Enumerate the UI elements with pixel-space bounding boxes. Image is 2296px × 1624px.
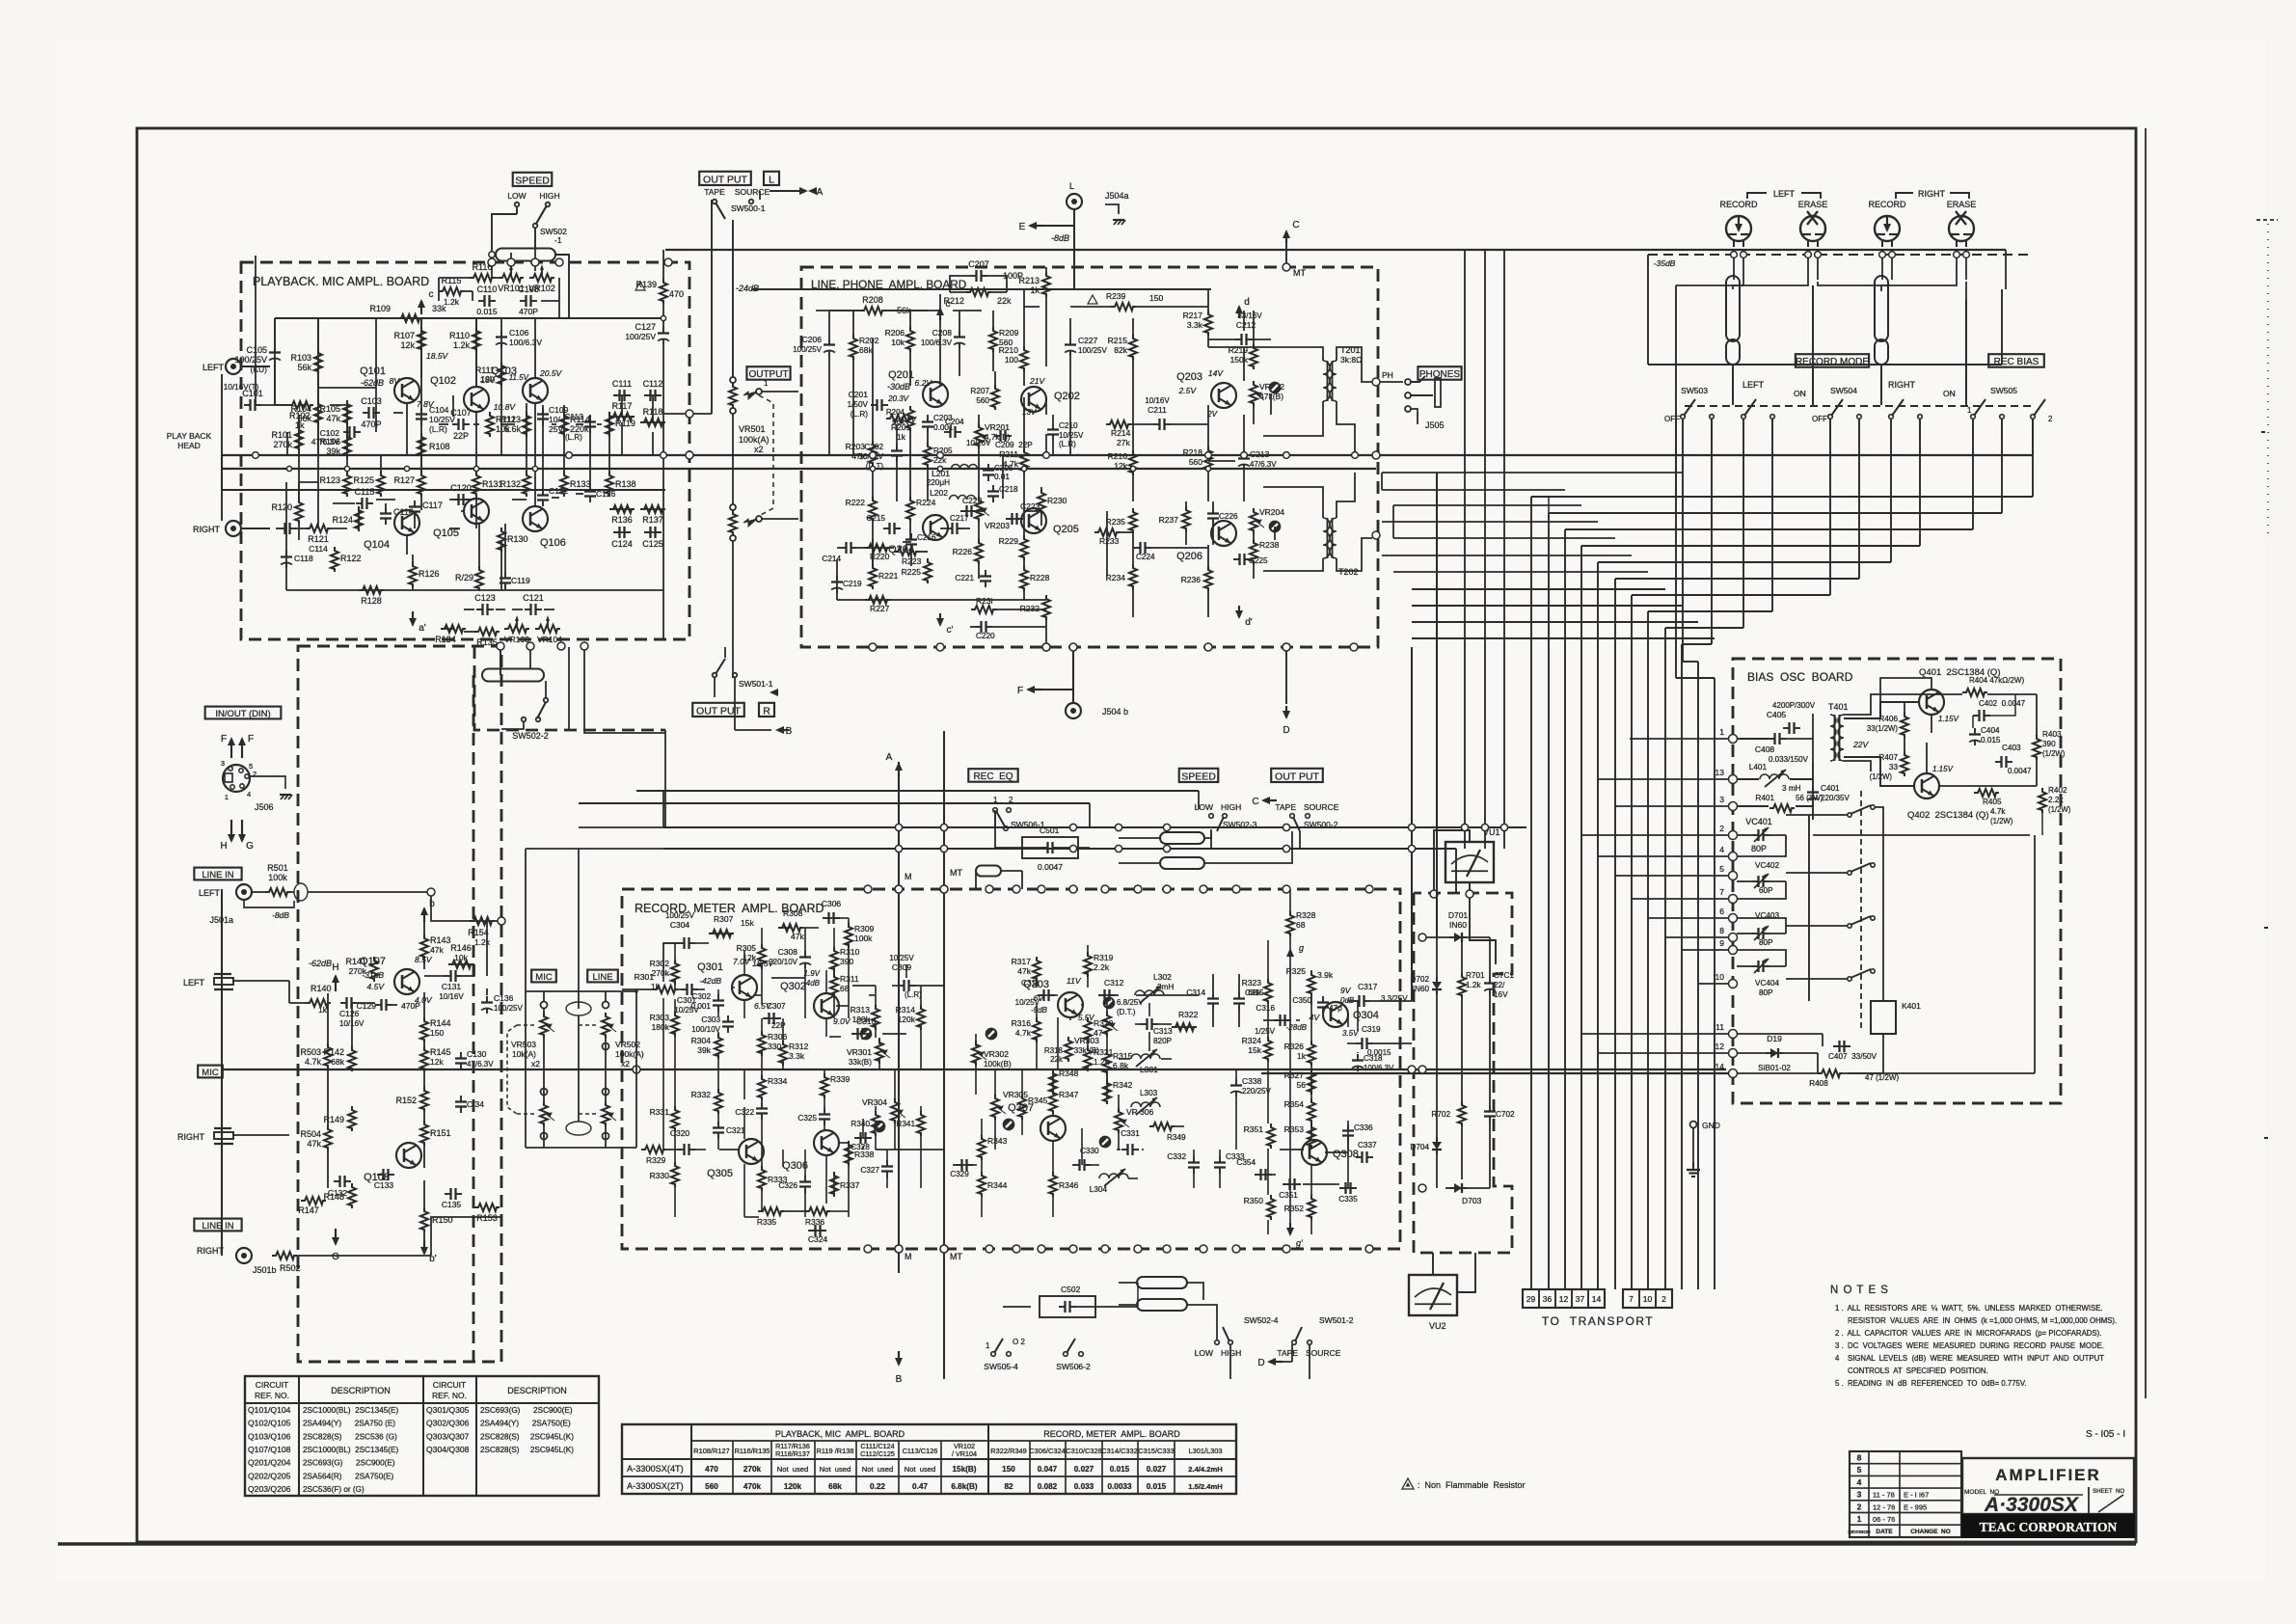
svg-text:R132: R132 [500, 479, 521, 489]
svg-text:100/10V: 100/10V [691, 1025, 720, 1034]
svg-text:R108: R108 [429, 442, 450, 451]
svg-text:R322/R349: R322/R349 [990, 1447, 1026, 1455]
svg-text:R501: R501 [267, 863, 288, 873]
svg-text:22/: 22/ [1494, 981, 1505, 989]
resistor R342 [1103, 1079, 1111, 1104]
svg-text:68k: 68k [331, 1057, 344, 1067]
sheet border frame [137, 128, 2136, 1542]
svg-text:R329: R329 [646, 1155, 666, 1165]
svg-text:C325: C325 [797, 1114, 817, 1123]
svg-text:PLAY BACK: PLAY BACK [167, 431, 212, 441]
svg-text:Q202: Q202 [1054, 391, 1080, 402]
resistor R109 [397, 314, 422, 322]
bracket label RIGHT heads [1896, 193, 1913, 199]
playback board vertical wires [274, 318, 276, 405]
svg-text:C405: C405 [1767, 710, 1787, 719]
svg-text:21V: 21V [1029, 376, 1045, 386]
bracket label LEFT heads [1747, 193, 1767, 199]
svg-text:OFF: OFF [1812, 415, 1827, 423]
svg-text:R324: R324 [1242, 1036, 1262, 1045]
svg-text:2: 2 [253, 770, 257, 778]
wire D arrow bottom [1283, 643, 1290, 651]
svg-text:Not used: Not used [905, 1465, 936, 1474]
svg-text:AMPLIFIER: AMPLIFIER [1995, 1466, 2101, 1484]
switch SW502-2 [522, 717, 527, 722]
svg-text:R312: R312 [789, 1042, 809, 1051]
pot VR104 [535, 625, 560, 633]
resistor R124 [355, 506, 363, 531]
capacitor C221 [985, 570, 986, 577]
svg-text:6.2V: 6.2V [915, 378, 933, 388]
svg-text:E - 995: E - 995 [1904, 1502, 1927, 1511]
svg-text:D19: D19 [1767, 1034, 1782, 1043]
svg-text:Q101: Q101 [360, 365, 386, 377]
inductor L304 [1099, 1174, 1128, 1178]
resistor R142 [348, 1046, 356, 1071]
svg-text:C310/C328: C310/C328 [1066, 1447, 1101, 1455]
svg-text:9V: 9V [1340, 986, 1352, 995]
svg-text:CHANGE NO: CHANGE NO [1910, 1529, 1951, 1535]
capacitor C350 [1322, 996, 1324, 1003]
svg-text:R148: R148 [323, 1192, 344, 1202]
svg-text:1.15V: 1.15V [1938, 715, 1959, 723]
capacitor C303 [727, 1015, 729, 1022]
capacitor C225 [1233, 558, 1240, 560]
svg-text:470: 470 [705, 1465, 718, 1474]
svg-text:RIGHT: RIGHT [177, 1132, 205, 1142]
svg-text:6: 6 [1719, 907, 1724, 916]
resistor R343 [978, 1135, 986, 1160]
svg-text:VR203: VR203 [985, 521, 1010, 530]
svg-text:Q203: Q203 [1176, 371, 1202, 383]
svg-text:C307: C307 [767, 1002, 786, 1011]
capacitor C311 [1038, 994, 1044, 996]
svg-text:C113: C113 [564, 412, 583, 421]
capacitor C129 [375, 1004, 382, 1006]
svg-text:x2: x2 [621, 1059, 630, 1069]
head lead nodes [1731, 252, 1738, 258]
svg-text:C213: C213 [1250, 449, 1270, 459]
svg-text:R101: R101 [271, 430, 292, 440]
svg-text:C317: C317 [1358, 982, 1378, 991]
dashed gang links [517, 1024, 536, 1026]
transistor Q401 [1919, 690, 1944, 715]
svg-text:R341: R341 [896, 1120, 915, 1128]
svg-text:VR102: VR102 [528, 284, 555, 293]
playback board horizontal joins [318, 387, 376, 389]
svg-text:Q107/Q108: Q107/Q108 [248, 1445, 291, 1454]
svg-text:RIGHT: RIGHT [197, 1246, 225, 1256]
svg-text:IN/OUT (DIN): IN/OUT (DIN) [215, 709, 270, 719]
svg-text:RIGHT: RIGHT [193, 525, 221, 534]
resistor R237 [1182, 506, 1190, 531]
svg-text:R239: R239 [1106, 291, 1126, 301]
svg-text:R342: R342 [1113, 1080, 1133, 1090]
svg-text:3k:8Ω: 3k:8Ω [1340, 355, 1362, 365]
wire bias VC403 gang [1737, 933, 1752, 934]
resistor R316 [1033, 1017, 1040, 1042]
svg-text:L: L [769, 174, 774, 185]
svg-text:R337: R337 [840, 1180, 860, 1190]
svg-text:2: 2 [1857, 1502, 1862, 1511]
mic jack feeds [233, 980, 289, 982]
pot VR503 lower [540, 1101, 548, 1126]
svg-text:Q304/Q308: Q304/Q308 [426, 1445, 470, 1454]
svg-text:HEAD: HEAD [177, 441, 201, 450]
svg-text:R221: R221 [878, 571, 899, 581]
pot VR305 [991, 1095, 999, 1120]
svg-text:RESISTOR VALUES ARE IN OHM: RESISTOR VALUES ARE IN OHMS (k =1,000 OH… [1848, 1316, 2117, 1325]
resistor R110 [473, 327, 480, 352]
svg-text:20.3V: 20.3V [887, 394, 909, 403]
jack J501b [236, 1248, 252, 1263]
svg-text:C336: C336 [1354, 1123, 1373, 1132]
svg-text:470P: 470P [361, 420, 381, 429]
svg-text:C211: C211 [1148, 405, 1167, 415]
svg-text:Q108: Q108 [364, 1172, 390, 1183]
svg-text:C354: C354 [1236, 1158, 1256, 1167]
resistor R207 [991, 385, 999, 410]
svg-text:C502: C502 [1061, 1285, 1081, 1294]
svg-text:15k: 15k [1248, 1045, 1261, 1055]
wire vr101 to speed sw [491, 249, 493, 278]
resistor R354 [1308, 1098, 1315, 1123]
resistor R213 [1042, 272, 1050, 297]
svg-text:150: 150 [1149, 293, 1163, 303]
erase head right [1949, 216, 1974, 241]
svg-text:MIC: MIC [535, 972, 553, 983]
svg-text:47/6.3V: 47/6.3V [311, 437, 340, 447]
svg-text:E: E [1019, 222, 1026, 232]
capacitor C104 [420, 408, 422, 415]
resistor R402 [2039, 788, 2046, 813]
svg-text:4.7k: 4.7k [1990, 807, 2006, 816]
svg-text:2SC536(F) or (G): 2SC536(F) or (G) [303, 1485, 365, 1494]
svg-text:C329: C329 [950, 1170, 969, 1178]
svg-text:470: 470 [669, 289, 684, 299]
svg-text:R702: R702 [1431, 1110, 1450, 1119]
resistor R218 [1204, 447, 1212, 472]
svg-text:Not used: Not used [862, 1465, 894, 1474]
svg-text:2.2k: 2.2k [1094, 962, 1110, 972]
capacitor C201 [871, 404, 878, 406]
pot VR501 lower [729, 510, 737, 535]
transistor Q402 [1914, 773, 1939, 798]
svg-text:S - I05 - I: S - I05 - I [2086, 1429, 2125, 1440]
resistor R352 [1308, 1195, 1315, 1220]
capacitor C119 [504, 572, 506, 579]
svg-text:1k: 1k [897, 432, 906, 442]
net label LINE [587, 970, 618, 983]
node d arrow [1238, 307, 1240, 318]
svg-text:C119: C119 [511, 576, 530, 585]
inductor L201 [952, 465, 978, 470]
svg-text:Q102: Q102 [430, 375, 456, 387]
capacitor C328 [854, 1137, 861, 1139]
svg-text:A-3300SX(2T): A-3300SX(2T) [627, 1481, 684, 1491]
transistor Q308 [1302, 1140, 1327, 1165]
svg-text:3 . DC VOLTAGES WERE MEASU: 3 . DC VOLTAGES WERE MEASURED DURING REC… [1835, 1341, 2104, 1350]
mic amp wires [358, 1002, 375, 1004]
svg-text:C330: C330 [1080, 1147, 1099, 1155]
svg-text:C215: C215 [866, 514, 885, 523]
svg-text:82k: 82k [1114, 345, 1127, 355]
svg-text:REC EQ: REC EQ [973, 771, 1013, 782]
svg-text:R352: R352 [1284, 1204, 1305, 1213]
resistor R132 [523, 472, 530, 497]
svg-text:R213: R213 [1018, 276, 1040, 285]
shield ovals line pots [566, 1002, 591, 1015]
svg-text:R328: R328 [1296, 910, 1316, 920]
svg-text:C: C [1292, 220, 1299, 230]
resistor R235 [1129, 508, 1137, 533]
capacitor C318 [1357, 1054, 1359, 1061]
svg-text:R309: R309 [854, 924, 875, 934]
svg-text:C350: C350 [1292, 996, 1311, 1005]
resistor R310 [830, 947, 838, 972]
svg-text:PH: PH [1382, 370, 1393, 380]
svg-text:Q402 2SC1384 (Q): Q402 2SC1384 (Q) [1907, 810, 1989, 821]
svg-text:18.5V: 18.5V [752, 959, 775, 968]
svg-text:d: d [1244, 297, 1250, 308]
svg-text:4200P/300V: 4200P/300V [1772, 701, 1816, 710]
svg-text:SW502-2: SW502-2 [512, 731, 549, 741]
top filter cluster R115 C110 VR101 C108 VR102 R116 [439, 287, 464, 295]
svg-text:68k: 68k [828, 1482, 842, 1491]
diode D701 [1449, 936, 1467, 938]
transistor Q205 [1021, 508, 1046, 533]
svg-text:O 2: O 2 [1013, 1338, 1025, 1346]
svg-text:SW502-4: SW502-4 [1244, 1315, 1279, 1325]
svg-text:LOW: LOW [507, 191, 526, 201]
capacitor C307 [763, 1017, 770, 1019]
svg-text:x2: x2 [531, 1059, 540, 1069]
svg-text:C702: C702 [1496, 1110, 1515, 1119]
capacitor C133 [377, 1174, 384, 1176]
resistor R408 [1818, 1069, 1843, 1077]
svg-text:R335: R335 [757, 1217, 777, 1227]
svg-text:C328: C328 [851, 1143, 870, 1151]
rectifier wires [1422, 936, 1449, 938]
svg-text:Not used: Not used [777, 1465, 809, 1474]
capacitor C407 [1833, 1045, 1840, 1047]
svg-text:R229: R229 [999, 536, 1019, 546]
svg-text:560: 560 [976, 396, 989, 405]
svg-text:R320: R320 [1094, 1018, 1114, 1028]
resistor R331 [671, 1106, 679, 1131]
resistor R111 [498, 362, 505, 387]
capacitor C502 [1040, 1296, 1095, 1317]
resistor R315 [1103, 1050, 1111, 1075]
svg-text:D702: D702 [1410, 975, 1429, 984]
svg-text:R314: R314 [896, 1005, 916, 1015]
svg-text:R402: R402 [2048, 786, 2067, 795]
bottom sheet rule [58, 1542, 2136, 1545]
svg-text:OUT PUT: OUT PUT [703, 174, 747, 185]
svg-text:SHEET NO: SHEET NO [2093, 1488, 2124, 1495]
svg-text:SW502-3: SW502-3 [1223, 820, 1257, 829]
svg-text:MIC: MIC [202, 1068, 219, 1078]
svg-text:47/6.3V: 47/6.3V [1250, 460, 1277, 469]
svg-text:C: C [1252, 797, 1258, 807]
more bundle verticals upper [1548, 497, 1550, 513]
svg-text:LINE: LINE [592, 972, 612, 983]
resistor R104 [314, 400, 322, 425]
resistor R337 [830, 1172, 838, 1197]
net label OUT PUT R [692, 703, 744, 717]
resistor R504 [324, 1125, 332, 1150]
svg-text:14: 14 [1715, 1062, 1725, 1071]
svg-text:C209 22P: C209 22P [995, 441, 1033, 449]
svg-text:0.001: 0.001 [691, 1002, 712, 1011]
svg-text:47k: 47k [307, 1139, 321, 1149]
capacitor C220 [975, 626, 982, 628]
resistor R348 [1049, 1069, 1057, 1095]
wire nest horizontals [1531, 496, 2033, 498]
sheet no box [2088, 1487, 2090, 1514]
svg-text:LEFT: LEFT [1742, 380, 1765, 390]
board outline PLAYBACK MIC AMPL BOARD [241, 262, 689, 639]
svg-text:R401: R401 [1755, 794, 1774, 802]
resistor R301 [653, 986, 678, 993]
svg-text:a': a' [419, 623, 426, 634]
node c arrow [420, 301, 422, 314]
nodes on record board bottom edge [864, 1245, 872, 1253]
svg-text:220/25V: 220/25V [1242, 1087, 1271, 1096]
svg-text:4 SIGNAL LEVELS (dB) WER: 4 SIGNAL LEVELS (dB) WERE MEASURED WITH … [1835, 1354, 2104, 1363]
svg-text:C404: C404 [1981, 726, 2000, 735]
svg-text:820P: 820P [1153, 1037, 1173, 1045]
svg-text:R349: R349 [1167, 1133, 1186, 1142]
capacitor C215 [883, 528, 890, 529]
jack J504b [1066, 703, 1081, 718]
svg-text:d': d' [1245, 617, 1253, 628]
wire record head verticals to switch row [1732, 365, 1734, 403]
resistor R117 [609, 413, 635, 420]
svg-text:R325: R325 [1286, 966, 1307, 976]
head wires to capsules [1742, 280, 1744, 285]
svg-text:C318: C318 [1364, 1054, 1383, 1063]
capacitor C217 [946, 528, 953, 529]
svg-text:270k: 270k [743, 1465, 762, 1474]
wire long verticals heads to rails [1464, 250, 1466, 849]
svg-text:DESCRIPTION: DESCRIPTION [331, 1386, 391, 1395]
svg-text:OUTPUT: OUTPUT [748, 369, 788, 380]
svg-text:R330: R330 [650, 1171, 670, 1180]
svg-text:0.082: 0.082 [1038, 1482, 1058, 1491]
svg-text:C121: C121 [523, 593, 544, 603]
resistor R501 [265, 888, 290, 896]
resistor R230 [1038, 489, 1045, 514]
shield capsules speed mid [1160, 832, 1204, 844]
svg-text:LINE IN: LINE IN [202, 1221, 233, 1232]
svg-text:C319: C319 [1362, 1025, 1381, 1034]
svg-text:4: 4 [1719, 845, 1724, 854]
shield capsule rec-eq [976, 866, 1001, 877]
table board values [622, 1424, 1236, 1494]
svg-text:1.2k: 1.2k [444, 297, 460, 307]
resistor R141 [370, 957, 378, 982]
capacitor C207 [970, 275, 977, 277]
resistor R403 [2033, 735, 2040, 760]
board outline mic line input amp [298, 646, 501, 1362]
svg-text:D: D [1283, 725, 1289, 736]
capacitor C222 [960, 510, 967, 512]
resistor R234 [1129, 564, 1137, 589]
svg-text:C221: C221 [955, 574, 974, 582]
svg-text:80P: 80P [1759, 988, 1773, 997]
svg-text:06 - 76: 06 - 76 [1873, 1515, 1895, 1524]
svg-text:TAPE: TAPE [1277, 1348, 1298, 1358]
capacitor C208 [959, 331, 960, 338]
svg-text:2SA494(Y) 2SA750(E): 2SA494(Y) 2SA750(E) [480, 1420, 571, 1428]
svg-text:10/25V: 10/25V [1059, 431, 1084, 440]
capacitor C321 [717, 1122, 719, 1128]
svg-text:22k: 22k [1050, 1055, 1064, 1064]
svg-text:C204: C204 [945, 418, 964, 426]
svg-text:3.3k: 3.3k [1187, 320, 1203, 330]
svg-text:3: 3 [1719, 795, 1724, 804]
svg-text:SW504: SW504 [1830, 386, 1857, 395]
svg-text:Q302/Q306: Q302/Q306 [426, 1419, 470, 1428]
svg-text:C407 33/50V: C407 33/50V [1828, 1052, 1877, 1061]
svg-text:R136: R136 [611, 515, 633, 525]
svg-text:RECORD MODE: RECORD MODE [1796, 357, 1869, 367]
resistor R112 [486, 412, 494, 437]
H G arrows mic [335, 976, 337, 991]
svg-text:100/6.3V: 100/6.3V [509, 338, 542, 347]
resistor R205 [924, 443, 932, 468]
resistor R138 [606, 472, 613, 497]
pot VR302 [972, 1041, 980, 1066]
resistor R133 [560, 472, 568, 497]
svg-text:0.027: 0.027 [1147, 1465, 1167, 1474]
svg-text:VR304: VR304 [862, 1097, 887, 1107]
wire record head to record board [1676, 284, 1743, 286]
svg-text:0.47: 0.47 [912, 1482, 928, 1491]
svg-text:C403: C403 [2002, 744, 2021, 752]
svg-text:R302: R302 [650, 959, 670, 968]
svg-text:J506: J506 [255, 802, 274, 812]
svg-text:11V: 11V [1067, 976, 1082, 986]
capacitor C310 [851, 1033, 858, 1035]
svg-text:-1: -1 [554, 235, 562, 245]
svg-text:C219: C219 [843, 580, 862, 588]
svg-text:C309: C309 [892, 962, 912, 972]
svg-text:(KU): (KU) [251, 365, 268, 374]
wire right vertical sheet lines [2145, 128, 2147, 1398]
resistor R146 [448, 961, 473, 968]
svg-text:R113: R113 [500, 415, 521, 424]
transistor Q206 [1211, 521, 1236, 546]
svg-text:0.015: 0.015 [1110, 1465, 1130, 1474]
svg-text:12 - 76: 12 - 76 [1873, 1502, 1895, 1511]
ground J504a [1105, 204, 1119, 214]
svg-text:g': g' [1296, 1238, 1303, 1248]
svg-text:C302: C302 [691, 992, 711, 1001]
speed capsule nodes [489, 252, 495, 257]
capacitor C701 [1489, 977, 1491, 984]
wire speed switches to rails [1210, 831, 1212, 849]
resistor R311 [830, 973, 838, 998]
wire VR501 column vertical [732, 220, 734, 377]
resistor R217 [1204, 311, 1212, 336]
svg-text:R406: R406 [1878, 715, 1898, 723]
resistor R317 [1033, 957, 1040, 982]
svg-text:VR503: VR503 [511, 1040, 536, 1049]
svg-text:VR204: VR204 [1259, 507, 1284, 517]
svg-text:16V: 16V [1494, 990, 1508, 999]
